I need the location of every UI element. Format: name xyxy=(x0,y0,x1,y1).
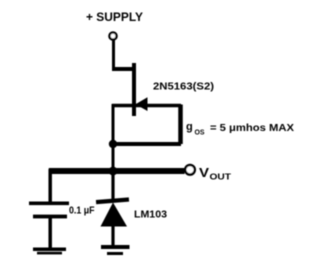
svg-text:2N5163(S2): 2N5163(S2) xyxy=(153,82,214,93)
svg-text:OS: OS xyxy=(195,130,205,137)
svg-text:OUT: OUT xyxy=(210,172,232,182)
svg-text:+ SUPPLY: + SUPPLY xyxy=(86,12,143,24)
svg-text:0.1 μF: 0.1 μF xyxy=(69,205,95,216)
svg-text:g: g xyxy=(186,121,193,133)
svg-text:= 5 μmhos MAX: = 5 μmhos MAX xyxy=(210,123,294,134)
svg-text:V: V xyxy=(199,165,209,180)
svg-text:LM103: LM103 xyxy=(134,210,167,221)
